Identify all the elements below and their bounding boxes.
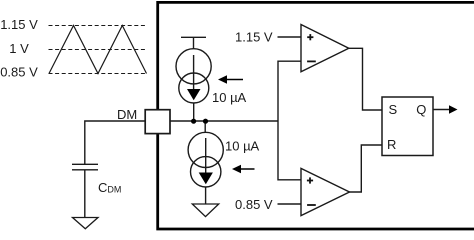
svg-text:10 µA: 10 µA	[212, 90, 247, 105]
svg-text:R: R	[387, 137, 396, 152]
svg-text:1 V: 1 V	[9, 41, 29, 56]
svg-text:1.15 V: 1.15 V	[235, 30, 273, 45]
svg-text:0.85 V: 0.85 V	[235, 197, 273, 212]
svg-text:10 µA: 10 µA	[225, 138, 260, 153]
svg-text:DM: DM	[117, 107, 137, 122]
svg-text:Q: Q	[416, 102, 426, 117]
svg-text:1.15 V: 1.15 V	[0, 17, 38, 32]
svg-text:0.85 V: 0.85 V	[0, 64, 38, 79]
svg-text:CDM: CDM	[98, 180, 121, 195]
svg-text:S: S	[389, 102, 398, 117]
